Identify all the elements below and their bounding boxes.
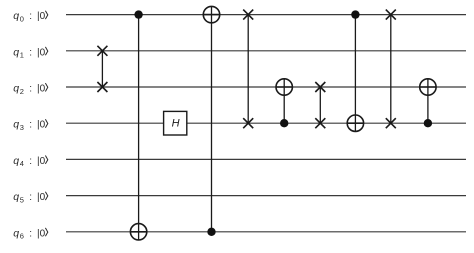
svg-text::: : xyxy=(29,228,32,239)
svg-text:3: 3 xyxy=(20,123,24,132)
swap gate q0-q3 vertical wire xyxy=(390,15,392,124)
wire q0 xyxy=(66,14,466,16)
wire q3 xyxy=(66,122,466,124)
H gate box on q3 xyxy=(164,111,187,135)
svg-text:|0: |0 xyxy=(37,47,46,58)
qubit label q2 xyxy=(13,83,48,96)
svg-text:q: q xyxy=(13,155,19,167)
wire q5 xyxy=(66,195,466,197)
svg-text:|0: |0 xyxy=(37,228,46,239)
control dot on q0 xyxy=(134,10,142,18)
svg-text:|0: |0 xyxy=(37,156,46,167)
svg-text:q: q xyxy=(13,227,19,239)
svg-text::: : xyxy=(29,84,32,95)
control dot on q6 xyxy=(207,228,215,236)
svg-text::: : xyxy=(29,192,32,203)
wire q4 xyxy=(66,158,466,160)
control dot on q0 xyxy=(351,10,359,18)
swap cross on q3 xyxy=(243,118,253,128)
swap cross on q1 xyxy=(97,46,107,56)
svg-text:5: 5 xyxy=(20,195,24,204)
svg-text:0: 0 xyxy=(20,14,24,23)
cnot q3->q2 vertical wire xyxy=(283,79,285,123)
cnot q0->q6 vertical wire xyxy=(138,15,140,240)
svg-text:|0: |0 xyxy=(37,192,46,203)
svg-text:q: q xyxy=(13,46,19,58)
svg-text:1: 1 xyxy=(20,51,24,60)
swap cross on q3 xyxy=(315,118,325,128)
cnot target on q0 xyxy=(203,6,219,22)
svg-text::: : xyxy=(29,47,32,58)
qubit label q5 xyxy=(13,191,48,204)
cnot q3->q2 vertical wire xyxy=(427,79,429,123)
svg-text:6: 6 xyxy=(20,232,24,241)
qubit label q4 xyxy=(13,155,48,168)
svg-text:q: q xyxy=(13,191,19,203)
cnot target on q3 xyxy=(347,115,363,131)
swap gate q1-q2 vertical wire xyxy=(101,51,103,87)
svg-text:|0: |0 xyxy=(37,84,46,95)
svg-text:2: 2 xyxy=(20,87,24,96)
qubit label q6 xyxy=(13,227,48,240)
svg-text:4: 4 xyxy=(20,159,24,168)
svg-text:|0: |0 xyxy=(37,120,46,131)
wire q1 xyxy=(66,50,466,52)
swap cross on q2 xyxy=(97,82,107,92)
swap cross on q0 xyxy=(243,10,253,20)
qubit label q0 xyxy=(13,10,48,23)
control dot on q3 xyxy=(280,119,288,127)
cnot q6->q0 vertical wire xyxy=(211,6,213,231)
control dot on q3 xyxy=(424,119,432,127)
svg-text:H: H xyxy=(172,117,180,129)
swap cross on q0 xyxy=(386,10,396,20)
swap gate q2-q3 vertical wire xyxy=(319,87,321,123)
swap gate q0-q3 vertical wire xyxy=(247,15,249,124)
cnot target on q2 xyxy=(420,79,436,95)
cnot q0->q3 vertical wire xyxy=(354,15,356,132)
wire q2 xyxy=(66,86,466,88)
svg-text::: : xyxy=(29,156,32,167)
qubit label q3 xyxy=(13,119,48,132)
cnot target on q6 xyxy=(130,224,146,240)
svg-text:q: q xyxy=(13,83,19,95)
wire q6 xyxy=(66,231,466,233)
svg-text::: : xyxy=(29,120,32,131)
cnot target on q2 xyxy=(276,79,292,95)
svg-text:q: q xyxy=(13,10,19,22)
svg-text:q: q xyxy=(13,119,19,131)
swap cross on q2 xyxy=(315,82,325,92)
svg-text:|0: |0 xyxy=(37,11,46,22)
swap cross on q3 xyxy=(386,118,396,128)
qubit label q1 xyxy=(13,46,48,59)
svg-text::: : xyxy=(29,11,32,22)
